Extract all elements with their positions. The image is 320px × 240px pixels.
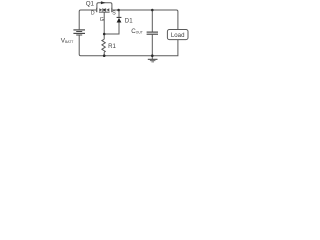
diode D1 triangle: [117, 18, 122, 23]
transistor Q1 gate bar: [99, 11, 110, 14]
battery V_BATT plates: [73, 30, 85, 35]
transistor Q1 channel loop: [97, 3, 112, 9]
svg-text:VBATT: VBATT: [61, 38, 74, 45]
svg-text:G: G: [100, 17, 104, 23]
wire gate down: [103, 13, 105, 35]
wire top rail left segment: [79, 10, 96, 29]
transistor Q1 right body-diode triangle: [106, 8, 109, 11]
svg-text:R1: R1: [108, 43, 116, 50]
svg-text:D1: D1: [125, 18, 133, 25]
wire Cout top: [151, 10, 153, 32]
transistor Q1 left body-diode triangle: [99, 8, 102, 11]
resistor R1 zigzag: [102, 39, 105, 52]
capacitor C_OUT plates: [147, 32, 158, 34]
wire R1 leads: [103, 34, 105, 56]
node Q1 center dot: [103, 9, 105, 11]
svg-text:Load: Load: [171, 32, 185, 39]
load box: [167, 30, 188, 40]
node gate junction dot: [103, 33, 106, 36]
diode D1 cathode bar: [117, 17, 122, 18]
wire gate to diode anode: [104, 22, 119, 34]
transistor Q1 right terminal bar: [111, 8, 112, 12]
wire ground stem: [151, 56, 153, 60]
transistor Q1 drain terminal bar: [96, 8, 97, 12]
wire D1 cathode to S node: [118, 10, 120, 17]
svg-text:Q1: Q1: [86, 0, 95, 7]
svg-text:S: S: [112, 10, 116, 16]
wire left rail lower: [79, 36, 178, 56]
svg-text:D: D: [91, 10, 95, 16]
node S junction dot: [117, 9, 120, 12]
wire Cout bottom: [151, 35, 153, 56]
svg-text:COUT: COUT: [131, 28, 142, 35]
node Cout bottom junction dot: [151, 54, 154, 57]
node Cout top junction dot: [151, 9, 154, 12]
node R1 bottom junction dot: [103, 54, 106, 57]
wire top rail right segment: [112, 10, 177, 30]
ground symbol: [148, 59, 158, 63]
transistor Q1 channel arrow: [101, 1, 106, 4]
